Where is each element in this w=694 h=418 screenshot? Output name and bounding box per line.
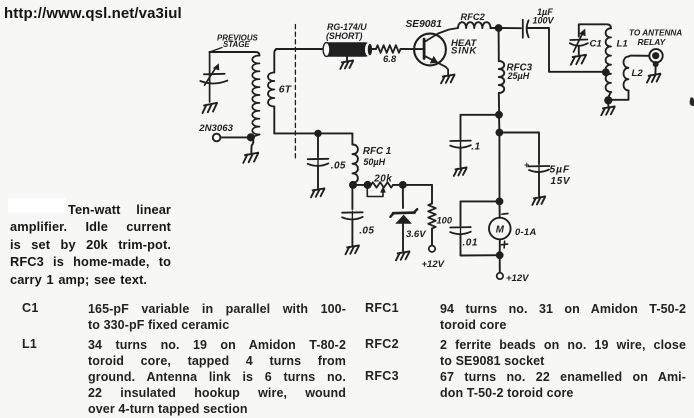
svg-text:+: + (524, 160, 530, 170)
svg-text:100: 100 (437, 215, 453, 225)
svg-text:3.6V: 3.6V (406, 229, 426, 240)
svg-text:.01: .01 (463, 237, 478, 248)
svg-text:6T: 6T (279, 84, 293, 96)
svg-text:L1: L1 (617, 39, 628, 50)
svg-text:C1: C1 (590, 39, 602, 50)
svg-text:50µH: 50µH (363, 157, 385, 167)
svg-text:15V: 15V (551, 176, 571, 187)
svg-text:L2: L2 (632, 68, 644, 79)
svg-text:STAGE: STAGE (223, 40, 250, 49)
svg-text:TO ANTENNA: TO ANTENNA (629, 28, 682, 37)
svg-text:0-1A: 0-1A (515, 226, 537, 237)
svg-text:RFC 1: RFC 1 (363, 146, 391, 157)
svg-text:5µF: 5µF (550, 165, 570, 176)
svg-text:RFC2: RFC2 (461, 12, 486, 22)
svg-text:SE9081: SE9081 (406, 19, 443, 30)
svg-text:.05: .05 (359, 226, 374, 237)
svg-text:M: M (496, 225, 505, 236)
svg-text:+12V: +12V (422, 259, 445, 270)
svg-text:20k: 20k (373, 173, 392, 184)
svg-text:SINK: SINK (451, 46, 477, 57)
svg-text:25µH: 25µH (507, 71, 530, 81)
svg-text:2N3063: 2N3063 (198, 123, 233, 134)
svg-text:100V: 100V (533, 16, 555, 26)
svg-text:.05: .05 (331, 161, 346, 172)
svg-text:.1: .1 (471, 142, 480, 153)
svg-text:(SHORT): (SHORT) (326, 31, 363, 41)
svg-text:RELAY: RELAY (638, 37, 667, 47)
svg-text:+12V: +12V (506, 273, 529, 284)
svg-text:6.8: 6.8 (383, 54, 397, 65)
